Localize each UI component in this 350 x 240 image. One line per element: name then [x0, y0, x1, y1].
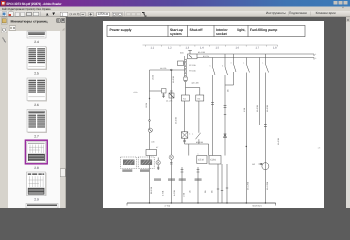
connector C3 [224, 105, 227, 114]
switch S4 [225, 67, 228, 75]
svg-text:16GN: 16GN [145, 102, 148, 108]
svg-text:Подписание: Подписание [289, 11, 307, 15]
main document area [66, 17, 346, 208]
svg-text:1: 1 [262, 62, 263, 65]
svg-text:2.5: 2.5 [34, 71, 39, 75]
wire across [185, 143, 209, 145]
drop wire 1.7 [245, 58, 247, 65]
wire lamp to bus [184, 138, 186, 144]
navigation tab strip [0, 17, 8, 208]
window title bar [0, 0, 350, 7]
connector C4 [264, 125, 267, 127]
wire down to CE10 [188, 144, 190, 156]
svg-text:Миниатюры страниц: Миниатюры страниц [11, 20, 48, 24]
ground bus [127, 202, 276, 204]
wire 1.35 to ground bus [181, 176, 183, 203]
wire jog [150, 90, 164, 92]
column ruler [143, 45, 278, 50]
svg-text:socket: socket [216, 32, 228, 36]
svg-text:2.9: 2.9 [34, 197, 39, 201]
wire main vertical 4A 2.5B [170, 70, 172, 155]
lamp E2 [156, 160, 160, 164]
terminal tag under pins P1 [179, 178, 186, 181]
header table [107, 25, 305, 36]
svg-text:4A 1.5B: 4A 1.5B [192, 82, 200, 85]
svg-text:1.5B: 1.5B [182, 192, 185, 197]
wire below motor [264, 170, 266, 203]
switch S4b [234, 64, 237, 72]
svg-text:MAIN-B21: MAIN-B21 [253, 205, 263, 208]
svg-text:5: 5 [210, 65, 211, 68]
sidebar panel [8, 17, 66, 208]
ground bus end ticks [126, 203, 128, 206]
drop wire 1.5 socket [212, 58, 214, 68]
connector box with X on wire 4A2.5B [169, 93, 174, 98]
svg-text:CE10: CE10 [198, 159, 205, 162]
svg-text:125%: 125% [98, 12, 106, 16]
svg-text:1.7: 1.7 [256, 47, 260, 50]
lamp E2 stem [157, 158, 159, 161]
svg-text:4A 1.5B: 4A 1.5B [198, 51, 206, 54]
bus wire +B upper [197, 53, 314, 55]
tag under unit A5 [122, 169, 132, 172]
menu bar [0, 7, 350, 12]
svg-text:4A 1.5B: 4A 1.5B [166, 100, 173, 103]
wire 1.7 down [245, 73, 247, 204]
toolbar [0, 11, 350, 17]
toolbar icons [2, 12, 147, 17]
switch S3 [196, 133, 201, 139]
page content [107, 25, 321, 207]
svg-text:16GN: 16GN [152, 74, 155, 80]
wire down to CJB1 [208, 144, 210, 156]
svg-text:3: 3 [189, 133, 190, 136]
drop wire 1.6a [224, 54, 226, 67]
connector pins P1 [181, 167, 184, 176]
svg-text:system: system [170, 32, 182, 36]
svg-text:5: 5 [222, 65, 223, 68]
svg-text:1: 1 [198, 153, 199, 156]
wire relay K2 down [198, 101, 200, 133]
wire relay K1 down [184, 101, 186, 132]
switch S4a [213, 67, 216, 75]
svg-text:0.75B: 0.75B [161, 190, 164, 196]
svg-text:4A 1.25B: 4A 1.25B [266, 181, 269, 190]
svg-text:1.1: 1.1 [151, 47, 155, 50]
wire stub to ground [226, 164, 228, 203]
svg-text:1: 1 [243, 62, 244, 65]
svg-text:4A 0.5B: 4A 0.5B [266, 104, 269, 112]
svg-text:1.4: 1.4 [200, 47, 204, 50]
wire 1.6a down [224, 75, 226, 156]
thumbnails [25, 31, 58, 208]
thumb partial [27, 31, 46, 38]
connector dashes below E2 [157, 167, 159, 169]
main vertical scrollbar [346, 17, 350, 208]
svg-text:1.3: 1.3 [186, 47, 190, 50]
relay feed wires [185, 81, 187, 88]
splice marks [170, 90, 173, 92]
svg-text:F2 10A: F2 10A [189, 64, 196, 67]
svg-text:1: 1 [315, 53, 316, 56]
svg-text:Инструменты: Инструменты [266, 11, 287, 15]
document page [103, 21, 324, 208]
svg-text:4: 4 [192, 133, 193, 136]
svg-text:Комментарии: Комментарии [316, 11, 336, 15]
sensor B1 [148, 128, 152, 132]
connector dashes below E3 [170, 162, 172, 164]
sidebar scrollbar [60, 31, 66, 208]
second wire 1.8 [259, 58, 261, 126]
svg-text:4.5B: 4.5B [243, 107, 246, 112]
switch S5 [246, 64, 249, 73]
connector dashes [211, 103, 214, 105]
connector box on jog [162, 89, 167, 94]
svg-text:A7: A7 [156, 146, 158, 149]
lamp E1 interior light [181, 132, 187, 138]
svg-text:CJB1: CJB1 [210, 159, 217, 162]
svg-text:A 0.5B: A 0.5B [173, 189, 176, 196]
svg-text:light,: light, [237, 28, 245, 32]
connector CE10 [197, 156, 207, 164]
lamp E3 [169, 155, 173, 159]
svg-text:Shut-off: Shut-off [190, 28, 204, 32]
ignition switch box [178, 50, 198, 66]
svg-text:1.2: 1.2 [168, 47, 172, 50]
svg-text:8B 0.5B: 8B 0.5B [150, 186, 153, 194]
svg-text:4A 1.25B: 4A 1.25B [247, 181, 250, 190]
wire 1.8 down [264, 73, 266, 163]
svg-text:4A 0.5B: 4A 0.5B [160, 67, 167, 70]
tag under unit A6 [140, 169, 150, 172]
unit A6 dashed [138, 157, 154, 169]
svg-text:4A 0.5B: 4A 0.5B [277, 137, 280, 145]
drop wire 1.6b [233, 54, 235, 64]
bus end terminal ticks [313, 54, 315, 56]
unit A7 box [146, 150, 157, 156]
svg-text:4A 0.5B: 4A 0.5B [256, 104, 259, 112]
splice node [149, 120, 151, 122]
connector dashes under lamp E1 [183, 140, 186, 142]
sidebar thumbnail list [8, 31, 60, 208]
svg-text:1.8: 1.8 [273, 47, 277, 50]
svg-text:1.6: 1.6 [236, 47, 240, 50]
wire 1.3 to ground bus [170, 170, 172, 203]
drop wire 1.8 [264, 54, 266, 64]
unit A5 dashed [121, 157, 137, 169]
svg-text:Power supply: Power supply [110, 28, 132, 32]
svg-text:1: 1 [62, 12, 64, 16]
relay K2 [196, 95, 204, 101]
bus wire +B lower [197, 57, 314, 59]
svg-text:Файл Редактирование Просмотр: Файл Редактирование Просмотр Окно Справк… [2, 7, 51, 11]
fuse chain [184, 56, 187, 82]
svg-text:3: 3 [231, 62, 232, 65]
svg-text:1.5: 1.5 [216, 47, 220, 50]
connector CJB1 [209, 156, 221, 165]
svg-text:A-T04: A-T04 [165, 205, 171, 208]
connector pins P2 [197, 167, 200, 176]
wire 1.4 to ground bus [197, 176, 199, 203]
svg-text:×: × [342, 6, 344, 10]
wire down left [149, 70, 151, 203]
svg-text:2.7: 2.7 [34, 134, 39, 138]
toolbar right buttons [266, 11, 336, 15]
jog to 1.6a [233, 72, 235, 85]
svg-text:(1 из 8): (1 из 8) [70, 12, 80, 16]
short stubs into CJB1 [217, 164, 219, 203]
svg-text:2.6: 2.6 [34, 103, 39, 107]
node D+ [246, 146, 247, 147]
svg-text:4A 2.5B: 4A 2.5B [172, 75, 175, 83]
svg-text:EPC4 3DT3 SN.pdf (25/876) - Ad: EPC4 3DT3 SN.pdf (25/876) - Adobe Reader [7, 2, 63, 6]
wire socket down [212, 75, 214, 156]
stub ticks [217, 188, 228, 191]
svg-text:2.4: 2.4 [34, 40, 39, 44]
svg-text:F3 10A: F3 10A [189, 70, 196, 73]
node at wire junction [171, 69, 173, 71]
terminal tag under pins P2 [195, 178, 202, 181]
svg-text:2: 2 [315, 57, 316, 60]
terminal tag under lamp E2 [154, 178, 161, 181]
svg-text:2.8: 2.8 [34, 166, 39, 170]
svg-text:Fuel-filling pump: Fuel-filling pump [250, 28, 277, 32]
wire battery feed [150, 69, 186, 71]
terminal tag under lamp E3 [168, 178, 175, 181]
svg-text:4.5 Па: 4.5 Па [203, 55, 210, 58]
fuel pump motor M2 [259, 163, 269, 170]
lamp wires to ground [157, 165, 159, 170]
svg-text:4A 0.5B: 4A 0.5B [196, 141, 204, 144]
svg-text:4A 2.5B: 4A 2.5B [175, 116, 178, 124]
diode D1 [224, 134, 227, 138]
switch S6 [265, 64, 268, 73]
bus junction dots [149, 202, 266, 203]
relay K1 [181, 95, 189, 101]
splice mark [149, 98, 150, 99]
